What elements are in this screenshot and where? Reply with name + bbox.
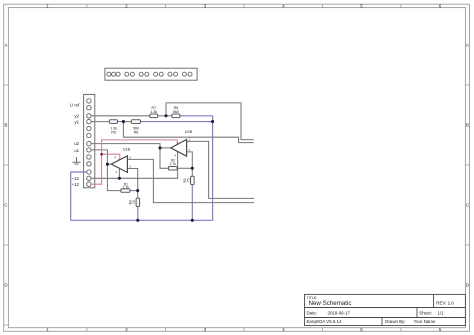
ground <box>72 157 80 164</box>
svg-text:D: D <box>4 283 7 288</box>
wire blue R3 bottom <box>191 185 193 221</box>
svg-text:R5: R5 <box>111 130 116 134</box>
wire U1B feedback left leg <box>107 164 121 190</box>
junction red V+ node <box>100 153 103 156</box>
svg-text:1/1: 1/1 <box>438 310 445 315</box>
svg-text:C: C <box>466 203 469 208</box>
junction U1B V- node <box>118 177 121 180</box>
wire blue R8 to rail to gnd pin <box>71 116 213 221</box>
junction R2-R3 node <box>191 167 194 170</box>
wire blue R4 bottom <box>137 207 139 221</box>
svg-text:Sheet:: Sheet: <box>419 310 432 315</box>
resistor R6 <box>131 120 140 135</box>
connector P1 (left, 13 round pads) <box>84 94 95 187</box>
ruler letters right <box>466 43 469 288</box>
resistor R7 <box>150 106 158 117</box>
ruler letters left <box>4 43 7 288</box>
wire U2B plus input stub to right <box>187 141 255 198</box>
svg-text:u2: u2 <box>74 141 79 146</box>
junction R7-R8 node <box>164 114 167 117</box>
svg-text:−12: −12 <box>72 176 80 181</box>
wire node to U2B minus input <box>187 152 193 168</box>
wire u1 to U1B output <box>91 150 107 164</box>
svg-text:2018-06-17: 2018-06-17 <box>328 310 351 315</box>
junction R1-R4 node <box>136 189 139 192</box>
wire y1 net <box>91 121 109 123</box>
svg-text:D: D <box>466 283 469 288</box>
wire R1 to node <box>130 190 138 192</box>
junction U2B output node <box>158 146 161 149</box>
wire blue y1 output net <box>141 121 213 123</box>
svg-text:75: 75 <box>187 178 191 182</box>
title block <box>305 294 466 325</box>
wire red branch to U1B V+ <box>102 154 120 160</box>
svg-text:R6: R6 <box>134 130 139 134</box>
ruler ticks right <box>465 85 469 245</box>
svg-text:C: C <box>4 203 7 208</box>
svg-text:A: A <box>5 43 8 48</box>
svg-text:Your Name: Your Name <box>414 319 436 324</box>
wire y2 net <box>91 115 150 117</box>
svg-text:EasyEDA V5.5.14: EasyEDA V5.5.14 <box>307 319 342 324</box>
resistor R1 <box>121 182 130 192</box>
resistor R8 <box>172 106 180 117</box>
junction rail R3 node <box>191 219 194 222</box>
svg-text:2.7k: 2.7k <box>170 162 177 166</box>
ruler ticks bottom <box>87 328 401 332</box>
svg-text:A: A <box>466 43 469 48</box>
wire -12 supply <box>91 151 178 178</box>
title block text <box>307 296 455 324</box>
wire U2B feedback to R2 <box>160 148 168 168</box>
resistor R5 <box>109 120 117 135</box>
wire node to R4 <box>137 191 139 199</box>
svg-text:B: B <box>5 123 8 128</box>
junction U1B output node <box>106 163 109 166</box>
svg-text:560: 560 <box>173 110 179 114</box>
ruler ticks left <box>4 85 9 325</box>
svg-text:1.3k: 1.3k <box>150 110 157 114</box>
wire U1B minus input stub to right <box>127 159 254 202</box>
op-amp U1B <box>111 148 131 175</box>
svg-text:U1B: U1B <box>123 148 131 152</box>
connector P2 (top header, 13 round pads) <box>105 68 197 80</box>
wire y1 between R5 R6 <box>118 121 132 123</box>
svg-text:+12: +12 <box>72 182 80 187</box>
op-amp U2B <box>171 130 193 157</box>
svg-text:2.7k: 2.7k <box>123 186 130 190</box>
resistor R2 <box>168 159 177 170</box>
svg-text:y1: y1 <box>74 120 79 125</box>
resistor R4 <box>129 198 140 206</box>
svg-text:B: B <box>466 123 469 128</box>
svg-text:u1: u1 <box>74 148 79 153</box>
wire U1B output to apex <box>107 163 111 165</box>
svg-text:Date:: Date: <box>307 310 318 315</box>
wire R2 to node <box>177 167 192 169</box>
wire U2B output to apex <box>160 147 171 149</box>
resistor R3 <box>183 176 194 184</box>
ruler ticks top <box>87 4 401 7</box>
wire stub stair from R7-R8 junction <box>166 103 254 140</box>
junction R5-R6 node <box>122 120 125 123</box>
junction blue y1 node <box>211 120 214 123</box>
wire U1B V- pin <box>118 169 120 178</box>
wire node to R3 <box>191 168 193 176</box>
svg-text:75: 75 <box>132 200 136 204</box>
wire y2 between R7 R8 <box>158 115 172 117</box>
ruler numbers bottom <box>46 327 442 332</box>
svg-text:REV: 1.0: REV: 1.0 <box>436 300 454 305</box>
ruler numbers top <box>46 3 442 8</box>
wire u2 to U2B output <box>91 144 160 148</box>
junction rail R4 node <box>136 219 139 222</box>
svg-text:U ref.: U ref. <box>70 102 81 107</box>
svg-text:U2B: U2B <box>185 130 193 134</box>
wire +12 red supply <box>91 140 177 184</box>
svg-text:New Schematic: New Schematic <box>309 300 352 307</box>
svg-text:y2: y2 <box>74 113 79 118</box>
svg-text:Drawn By:: Drawn By: <box>385 319 405 324</box>
wire stub stair from R5-R6 junction <box>123 122 253 143</box>
wire node to U1B plus input <box>127 169 137 191</box>
